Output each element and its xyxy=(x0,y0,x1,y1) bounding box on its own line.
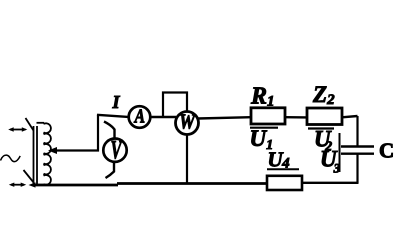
voltmeter top lead xyxy=(104,122,115,140)
bottom wire left end arrowhead xyxy=(29,182,36,187)
svg-text:U4: U4 xyxy=(268,148,291,172)
voltmeter bottom lead xyxy=(106,162,115,178)
wire ammeter to wattmeter xyxy=(150,116,176,118)
bottom terminal double arrow xyxy=(9,183,26,187)
top wire to ammeter xyxy=(97,115,129,117)
bottom wire middle segment xyxy=(117,182,267,185)
bottom slanted lead xyxy=(24,170,35,183)
label U1 with overbar xyxy=(250,127,278,129)
svg-text:C: C xyxy=(379,139,394,163)
svg-text:I: I xyxy=(112,92,121,112)
AC source squiggle xyxy=(1,155,21,162)
svg-text:R1: R1 xyxy=(250,84,275,110)
box U4 xyxy=(267,176,302,190)
svg-text:U3: U3 xyxy=(320,146,341,175)
voltage bar near capacitor xyxy=(339,133,341,172)
autotransformer winding xyxy=(37,122,45,124)
wire riser to top wire xyxy=(97,115,99,152)
wire wattmeter to R1 xyxy=(198,117,251,118)
wire capacitor down to bottom xyxy=(356,154,358,183)
wattmeter W xyxy=(176,112,199,135)
ammeter A xyxy=(129,106,151,128)
svg-text:Z2: Z2 xyxy=(312,82,335,108)
capacitor C xyxy=(341,145,374,147)
wiper arrow xyxy=(48,147,99,154)
svg-text:W: W xyxy=(179,111,196,134)
autotransformer core lines xyxy=(33,126,35,184)
svg-text:V: V xyxy=(110,136,123,165)
wattmeter voltage lead xyxy=(186,134,188,184)
label U2 with overbar xyxy=(308,127,334,129)
voltmeter V xyxy=(103,139,126,162)
resistor R1 xyxy=(251,108,285,124)
svg-text:A: A xyxy=(134,105,145,127)
top terminal double arrow xyxy=(8,127,27,131)
wire R1 to Z2 xyxy=(285,116,307,119)
bottom wire right segment xyxy=(302,182,359,184)
impedance Z2 xyxy=(307,108,342,125)
top slanted lead xyxy=(26,118,34,131)
wattmeter top box xyxy=(163,93,187,117)
wire Z2 to capacitor corner xyxy=(342,116,358,117)
bottom wire left segment xyxy=(33,184,118,187)
